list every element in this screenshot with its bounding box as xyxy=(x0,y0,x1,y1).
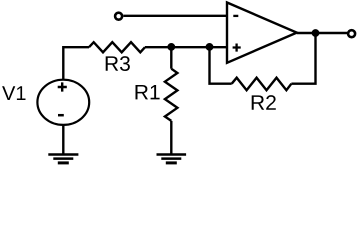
wire op-amp output xyxy=(297,32,347,34)
label R1 xyxy=(136,85,160,99)
label R3 xyxy=(106,56,130,71)
output terminal (open circle) xyxy=(348,30,355,37)
V1 minus sign xyxy=(58,114,64,117)
op-amp U1 xyxy=(227,3,297,63)
wire V1 top lead to R3 xyxy=(63,47,89,80)
wire R1 top lead xyxy=(170,47,172,69)
V1 plus sign xyxy=(58,82,67,91)
voltage source V1 xyxy=(37,80,89,125)
input terminal (open circle, inverting input) xyxy=(115,13,122,20)
wire V1 bottom lead xyxy=(62,125,64,154)
node junction output/feedback xyxy=(312,30,318,36)
resistor R3 xyxy=(89,42,145,52)
label V1 xyxy=(2,86,25,100)
resistor R2 xyxy=(232,78,292,91)
ground (R1) xyxy=(157,153,187,156)
op-amp minus symbol xyxy=(233,15,238,17)
wire minus-input xyxy=(123,15,227,17)
wire feedback down from output xyxy=(291,33,315,84)
ground (V1) xyxy=(48,153,78,156)
op-amp plus symbol xyxy=(233,44,241,52)
node junction R1/plus-line xyxy=(168,44,174,50)
node junction feedback/plus-line xyxy=(206,44,212,50)
resistor R1 xyxy=(165,69,178,121)
wire R3 to op-amp plus input xyxy=(145,46,227,48)
wire R1 bottom lead xyxy=(170,121,172,154)
wire R2 left to plus junction xyxy=(210,47,232,84)
label R2 xyxy=(252,95,276,110)
